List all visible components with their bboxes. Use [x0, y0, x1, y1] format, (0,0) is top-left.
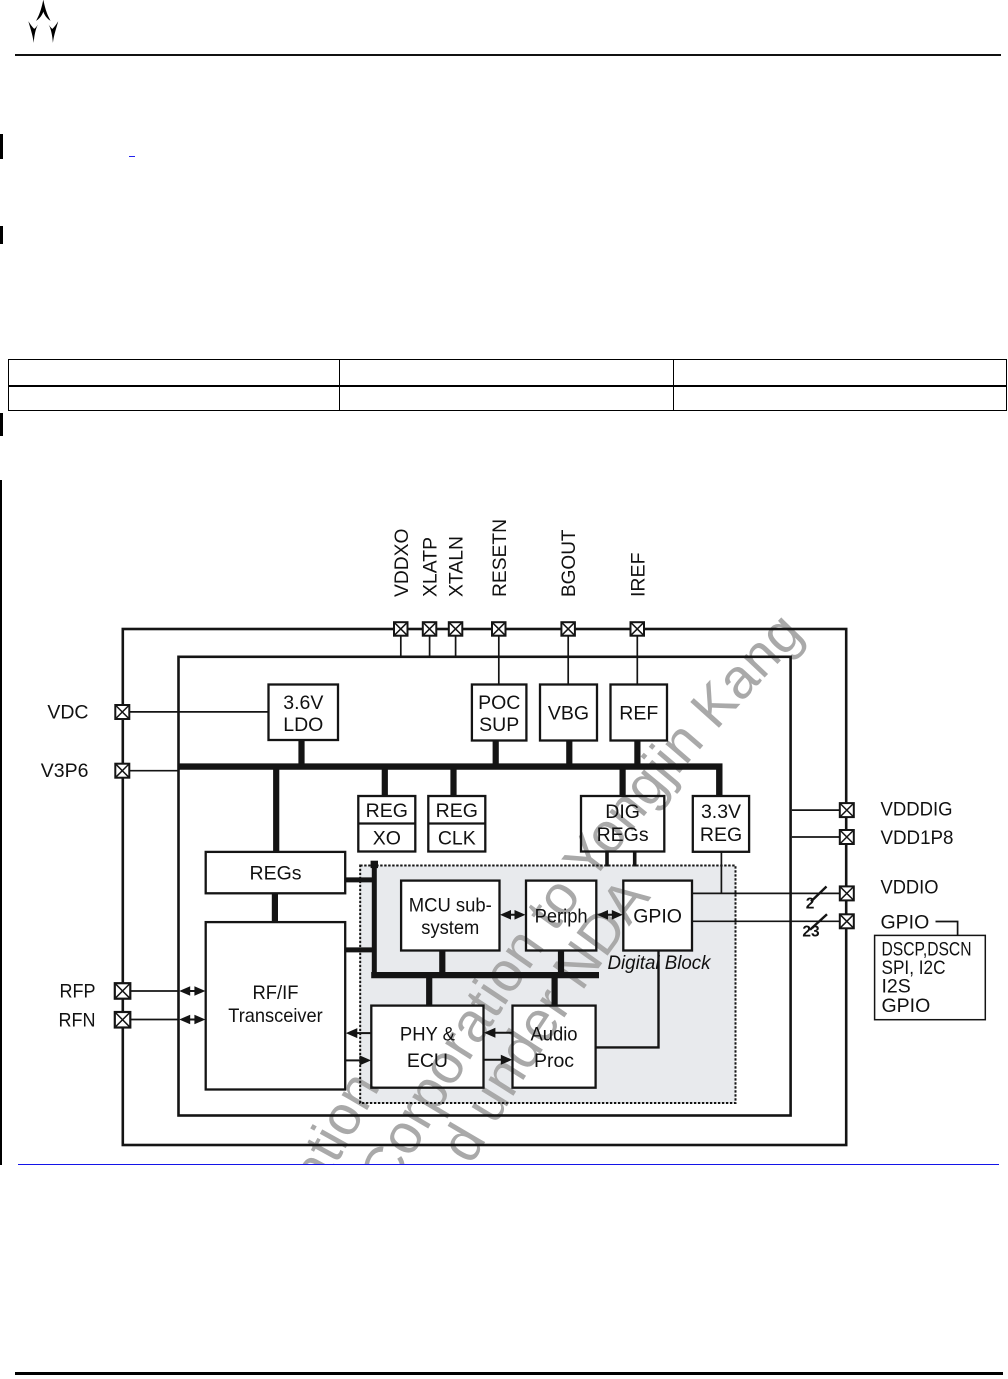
digital block dashed border — [360, 866, 735, 1104]
block REF — [611, 685, 668, 741]
block 3.6V LDO — [269, 685, 339, 741]
label RESETN — [489, 519, 511, 597]
figure bottom rule (blue) — [18, 1164, 999, 1166]
svg-text:2: 2 — [806, 896, 815, 913]
pin BGOUT — [561, 622, 575, 636]
watermark arc line 3 — [200, 1061, 391, 1352]
svg-text:RESETN: RESETN — [489, 519, 511, 597]
svg-text:Proc: Proc — [534, 1050, 574, 1072]
digital bus stub PHY — [426, 975, 432, 1006]
text REF — [619, 703, 658, 725]
pin GPIO — [840, 914, 854, 928]
block REGS — [206, 852, 346, 893]
text VBG — [548, 703, 589, 725]
arrow transceiver to PHY — [345, 1055, 371, 1065]
svg-text:IREF: IREF — [627, 552, 649, 597]
wire VDDDIG — [792, 809, 840, 811]
pin XTALN — [449, 622, 463, 636]
text REG XO — [366, 800, 408, 850]
block REG XO — [358, 796, 415, 852]
bus stub REGS — [273, 767, 279, 852]
wire XLATP drop — [429, 636, 431, 656]
text Periph — [535, 906, 588, 928]
svg-text:DIG: DIG — [605, 801, 640, 823]
junction node at digital border — [371, 861, 378, 868]
stub DIG REGS down B — [633, 852, 637, 867]
label XTALN — [446, 536, 468, 597]
digital bus stub Audio — [551, 975, 557, 1006]
link underline dash — [129, 156, 135, 158]
svg-text:XO: XO — [373, 828, 401, 850]
text 3.3V REG — [700, 801, 742, 846]
legend box DSCP — [875, 935, 986, 1019]
wire RFN — [131, 1019, 179, 1021]
svg-text:23: 23 — [802, 924, 820, 941]
wire RESETN drop — [498, 636, 500, 685]
analog inner boundary — [179, 657, 791, 1116]
bus stub LDO — [298, 740, 304, 767]
wire transceiver to digital bus — [345, 947, 374, 952]
wire VDD1P8 — [792, 836, 840, 838]
text 3.6V LDO — [283, 692, 323, 736]
watermark arc line 1 — [346, 600, 813, 1200]
digital block shading — [360, 866, 735, 1104]
digital bus horizontal — [371, 972, 599, 978]
svg-text:VBG: VBG — [548, 703, 589, 725]
block VBG — [540, 685, 597, 741]
label XLATP — [420, 537, 442, 597]
pin RFN — [115, 1012, 131, 1028]
block Audio Proc — [513, 1006, 596, 1088]
company logo mark — [0, 0, 70, 50]
wire GPIO legend bracket — [936, 922, 958, 936]
block RF/IF Transceiver — [206, 922, 346, 1089]
arrow MCU-Periph bidirectional — [500, 910, 526, 920]
bus stub DIG REGS — [619, 767, 625, 796]
wire V3P6 — [130, 770, 179, 772]
change bar B — [0, 226, 3, 244]
label VDC — [47, 702, 88, 724]
svg-text:RFP: RFP — [60, 981, 96, 1003]
svg-text:POC: POC — [478, 692, 520, 714]
svg-text:REG: REG — [700, 824, 742, 846]
wire XTALN drop — [455, 636, 457, 656]
table grid — [8, 359, 1007, 360]
svg-text:3.3V: 3.3V — [701, 801, 741, 823]
svg-text:VDDDIG: VDDDIG — [881, 799, 953, 821]
arrow Periph-GPIO bidirectional — [597, 910, 623, 920]
block Audio fill — [513, 1006, 596, 1088]
arrow RFN bidirectional — [179, 1015, 205, 1025]
block MCU fill — [401, 881, 499, 951]
svg-text:BGOUT: BGOUT — [558, 529, 580, 597]
pin V3P6 — [115, 764, 129, 778]
label GPIO — [881, 911, 930, 933]
header rule — [15, 54, 1001, 56]
svg-text:RFN: RFN — [59, 1010, 96, 1032]
block 3.3V REG — [693, 796, 749, 852]
svg-text:I2S: I2S — [882, 976, 911, 998]
pin VDDXO — [394, 622, 408, 636]
block REG CLK — [428, 796, 485, 852]
svg-text:MCU sub-: MCU sub- — [409, 895, 492, 917]
digital bus stub Periph — [558, 951, 564, 976]
bus stub POC SUP — [493, 741, 499, 767]
label bus width 2 — [806, 896, 815, 913]
arrow Audio to PHY — [484, 1028, 513, 1038]
svg-text:LDO: LDO — [283, 714, 323, 736]
pin RFP — [115, 983, 131, 999]
label RFP — [60, 981, 96, 1003]
svg-text:XLATP: XLATP — [420, 537, 442, 597]
text Digital Block — [608, 952, 712, 974]
bus stub REG XO — [382, 767, 388, 796]
wire GPIO out — [692, 920, 840, 922]
block Periph — [526, 881, 596, 951]
block DIG REGS — [581, 796, 664, 852]
label VDDXO — [391, 529, 413, 598]
pin RESETN — [492, 622, 506, 636]
digital bus stub MCU — [439, 951, 445, 976]
wire REGS to transceiver — [272, 893, 278, 922]
svg-text:PHY &: PHY & — [400, 1024, 455, 1046]
pin XLATP — [423, 622, 437, 636]
bus stub REG CLK — [450, 767, 456, 796]
wire GPIO to Audio — [596, 951, 659, 1048]
label V3P6 — [41, 760, 89, 782]
power bus main — [178, 767, 719, 796]
svg-text:REF: REF — [619, 703, 658, 725]
svg-text:REG: REG — [436, 800, 478, 822]
svg-text:Transceiver: Transceiver — [228, 1005, 323, 1027]
pin VDDIO — [840, 886, 854, 900]
block PHY fill — [371, 1006, 483, 1088]
block GPIO fill — [623, 881, 692, 951]
wire VDDIO — [692, 892, 840, 894]
svg-text:Periph: Periph — [535, 906, 588, 928]
pin VDC — [115, 705, 129, 719]
svg-text:REGs: REGs — [249, 863, 301, 885]
svg-text:VDD1P8: VDD1P8 — [881, 827, 954, 849]
wire IREF drop — [636, 636, 638, 685]
change bar A — [0, 134, 3, 159]
label VDDIO — [881, 877, 939, 899]
svg-text:V3P6: V3P6 — [41, 760, 89, 782]
svg-text:GPIO: GPIO — [633, 906, 682, 928]
arrow PHY to transceiver — [346, 1028, 372, 1038]
svg-text:Audio: Audio — [531, 1024, 578, 1046]
footer rule — [15, 1372, 1003, 1375]
text REG CLK — [436, 800, 478, 850]
wire BGOUT drop — [567, 636, 569, 685]
svg-text:VDC: VDC — [47, 702, 88, 724]
arrow PHY to Audio — [484, 1055, 513, 1065]
label VDD1P8 — [881, 827, 954, 849]
arrow RFP bidirectional — [179, 986, 205, 996]
text DSCP legend — [882, 939, 972, 1018]
bus slash VDDIO — [811, 887, 827, 902]
pin VDDDIG — [840, 803, 854, 817]
change bar C — [0, 413, 3, 437]
svg-text:REGs: REGs — [597, 824, 649, 846]
label RFN — [59, 1010, 96, 1032]
change bar D (tall) — [0, 480, 2, 1165]
svg-text:CLK: CLK — [438, 828, 476, 850]
digital bus entry vertical — [372, 864, 377, 978]
text DIG REGS — [597, 801, 649, 846]
label bus width 23 — [802, 924, 820, 941]
label VDDDIG — [881, 799, 953, 821]
svg-text:3.6V: 3.6V — [283, 692, 323, 714]
block POC SUP — [472, 685, 527, 741]
chip outer boundary — [123, 629, 846, 1145]
bus slash GPIO — [810, 914, 827, 930]
wire REGS to digital bus — [345, 877, 374, 882]
svg-text:RF/IF: RF/IF — [253, 982, 299, 1004]
wire 3.3V REG to VDDIO — [720, 852, 722, 894]
pin IREF — [631, 622, 645, 636]
text REGS — [249, 863, 301, 885]
svg-text:ECU: ECU — [407, 1050, 448, 1072]
svg-text:REG: REG — [366, 800, 408, 822]
watermark arc line 2 — [427, 866, 661, 1172]
stub DIG REGS down A — [605, 852, 609, 867]
wire VDDXO drop — [400, 636, 402, 656]
text PHY ECU — [400, 1024, 455, 1073]
text RF/IF Transceiver — [228, 982, 323, 1027]
wire RFP — [131, 990, 179, 992]
label BGOUT — [558, 529, 580, 597]
bus stub VBG — [566, 741, 572, 767]
svg-text:GPIO: GPIO — [881, 911, 930, 933]
bus stub REF — [634, 741, 640, 767]
svg-text:GPIO: GPIO — [882, 995, 931, 1017]
text Audio Proc — [531, 1024, 578, 1073]
svg-text:Digital Block: Digital Block — [608, 952, 712, 974]
svg-text:VDDIO: VDDIO — [881, 877, 939, 899]
text POC SUP — [478, 692, 520, 736]
block Periph fill — [526, 881, 596, 951]
block GPIO — [623, 881, 692, 951]
block MCU subsystem — [401, 881, 499, 951]
svg-text:XTALN: XTALN — [446, 536, 468, 597]
pin VDD1P8 — [840, 830, 854, 844]
text MCU subsystem — [409, 895, 492, 940]
label IREF — [627, 552, 649, 597]
svg-text:SUP: SUP — [479, 714, 519, 736]
text GPIO block — [633, 906, 682, 928]
svg-text:VDDXO: VDDXO — [391, 529, 413, 598]
block PHY ECU — [371, 1006, 483, 1088]
svg-text:system: system — [421, 917, 479, 939]
wire VDC — [130, 711, 269, 713]
